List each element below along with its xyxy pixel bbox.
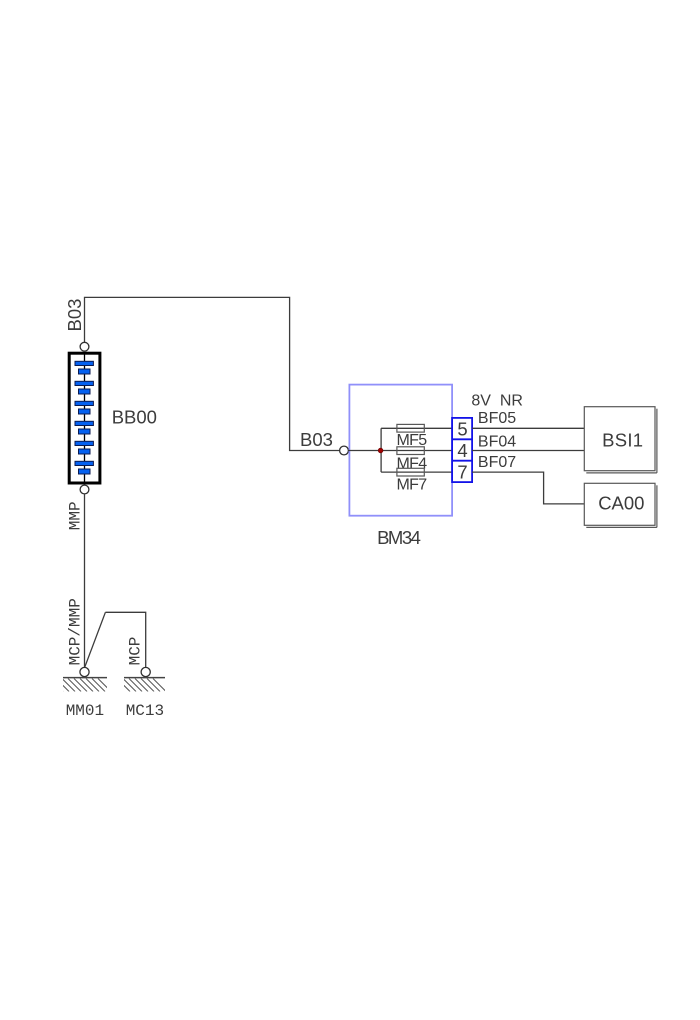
ground MM01 <box>50 667 111 691</box>
svg-text:MM01: MM01 <box>66 702 104 720</box>
wire: fuse branch vertical <box>380 428 382 472</box>
wire BF04: pin 4 to BSI1 <box>472 450 584 452</box>
svg-text:BSI1: BSI1 <box>602 429 643 450</box>
unit CA00 <box>584 483 657 527</box>
svg-text:MMP: MMP <box>67 501 85 530</box>
svg-text:5: 5 <box>457 419 467 440</box>
wire: diagonal branch to MM01 <box>85 612 106 668</box>
node MCP (label) <box>127 637 145 666</box>
connector circle at battery bottom <box>80 485 89 494</box>
wire BF07: pin 7 to CA00 <box>472 472 584 504</box>
label MF5 <box>397 432 428 449</box>
label net BF07 <box>478 454 516 471</box>
unit BM34 (fuse box outline) <box>349 385 452 516</box>
pin 4 <box>457 440 467 461</box>
svg-text:MCP: MCP <box>127 637 145 666</box>
label BM34 <box>377 527 421 548</box>
svg-text:MF7: MF7 <box>397 477 428 494</box>
fuse MF7 <box>397 468 424 476</box>
unit BSI1 <box>584 407 657 473</box>
wire BF05: pin 5 to BSI1 <box>472 427 584 429</box>
fuse MF5 <box>397 424 424 432</box>
svg-text:B03: B03 <box>300 429 333 450</box>
connector circle at battery top <box>80 342 89 351</box>
pin 7 <box>457 462 467 483</box>
svg-text:BB00: BB00 <box>112 406 157 427</box>
svg-text:CA00: CA00 <box>598 493 644 514</box>
label MC13 <box>126 702 164 720</box>
wire: branch to fuse MF7 / pin 7 <box>381 471 452 473</box>
svg-text:MF4: MF4 <box>397 455 428 472</box>
label MF7 <box>397 477 428 494</box>
wire: battery top B03 run to BM34 <box>85 297 345 450</box>
label B03 (at BM34 input) <box>300 429 333 450</box>
svg-text:MC13: MC13 <box>126 702 164 720</box>
pin 5 <box>457 419 467 440</box>
wire: branch to ground MC13 <box>105 612 145 667</box>
node MCP/MMP (label) <box>67 598 85 665</box>
label BB00 <box>112 406 157 427</box>
label MF4 <box>397 455 428 472</box>
ground MC13 <box>117 667 166 691</box>
svg-text:BF07: BF07 <box>478 454 516 471</box>
label 8V NR (wire spec) <box>471 393 523 410</box>
svg-text:BM34: BM34 <box>377 527 421 548</box>
connector circle B03 at BM34 <box>340 446 349 455</box>
svg-text:BF05: BF05 <box>478 410 516 427</box>
node MMP (label) <box>67 501 85 530</box>
svg-text:B03: B03 <box>64 299 85 332</box>
wire: B03 into BM34 to pin 4 <box>348 450 452 452</box>
svg-text:7: 7 <box>457 462 467 483</box>
svg-text:4: 4 <box>457 440 467 461</box>
label net BF05 <box>478 410 516 427</box>
label MM01 <box>66 702 104 720</box>
fuse MF4 <box>397 447 424 455</box>
svg-text:MCP/MMP: MCP/MMP <box>67 598 85 665</box>
connector pin block of BM34 <box>452 418 472 482</box>
battery BB00 <box>69 353 100 483</box>
junction node (red) on B03 feed <box>378 448 383 453</box>
svg-text:BF04: BF04 <box>478 433 516 450</box>
node B03 (label at battery top) <box>64 299 85 332</box>
svg-text:8V NR: 8V NR <box>471 393 523 410</box>
wire: branch to fuse MF5 / pin 5 <box>381 427 452 429</box>
wire: battery bottom to ground MM01 <box>84 494 86 668</box>
label net BF04 <box>478 433 516 450</box>
